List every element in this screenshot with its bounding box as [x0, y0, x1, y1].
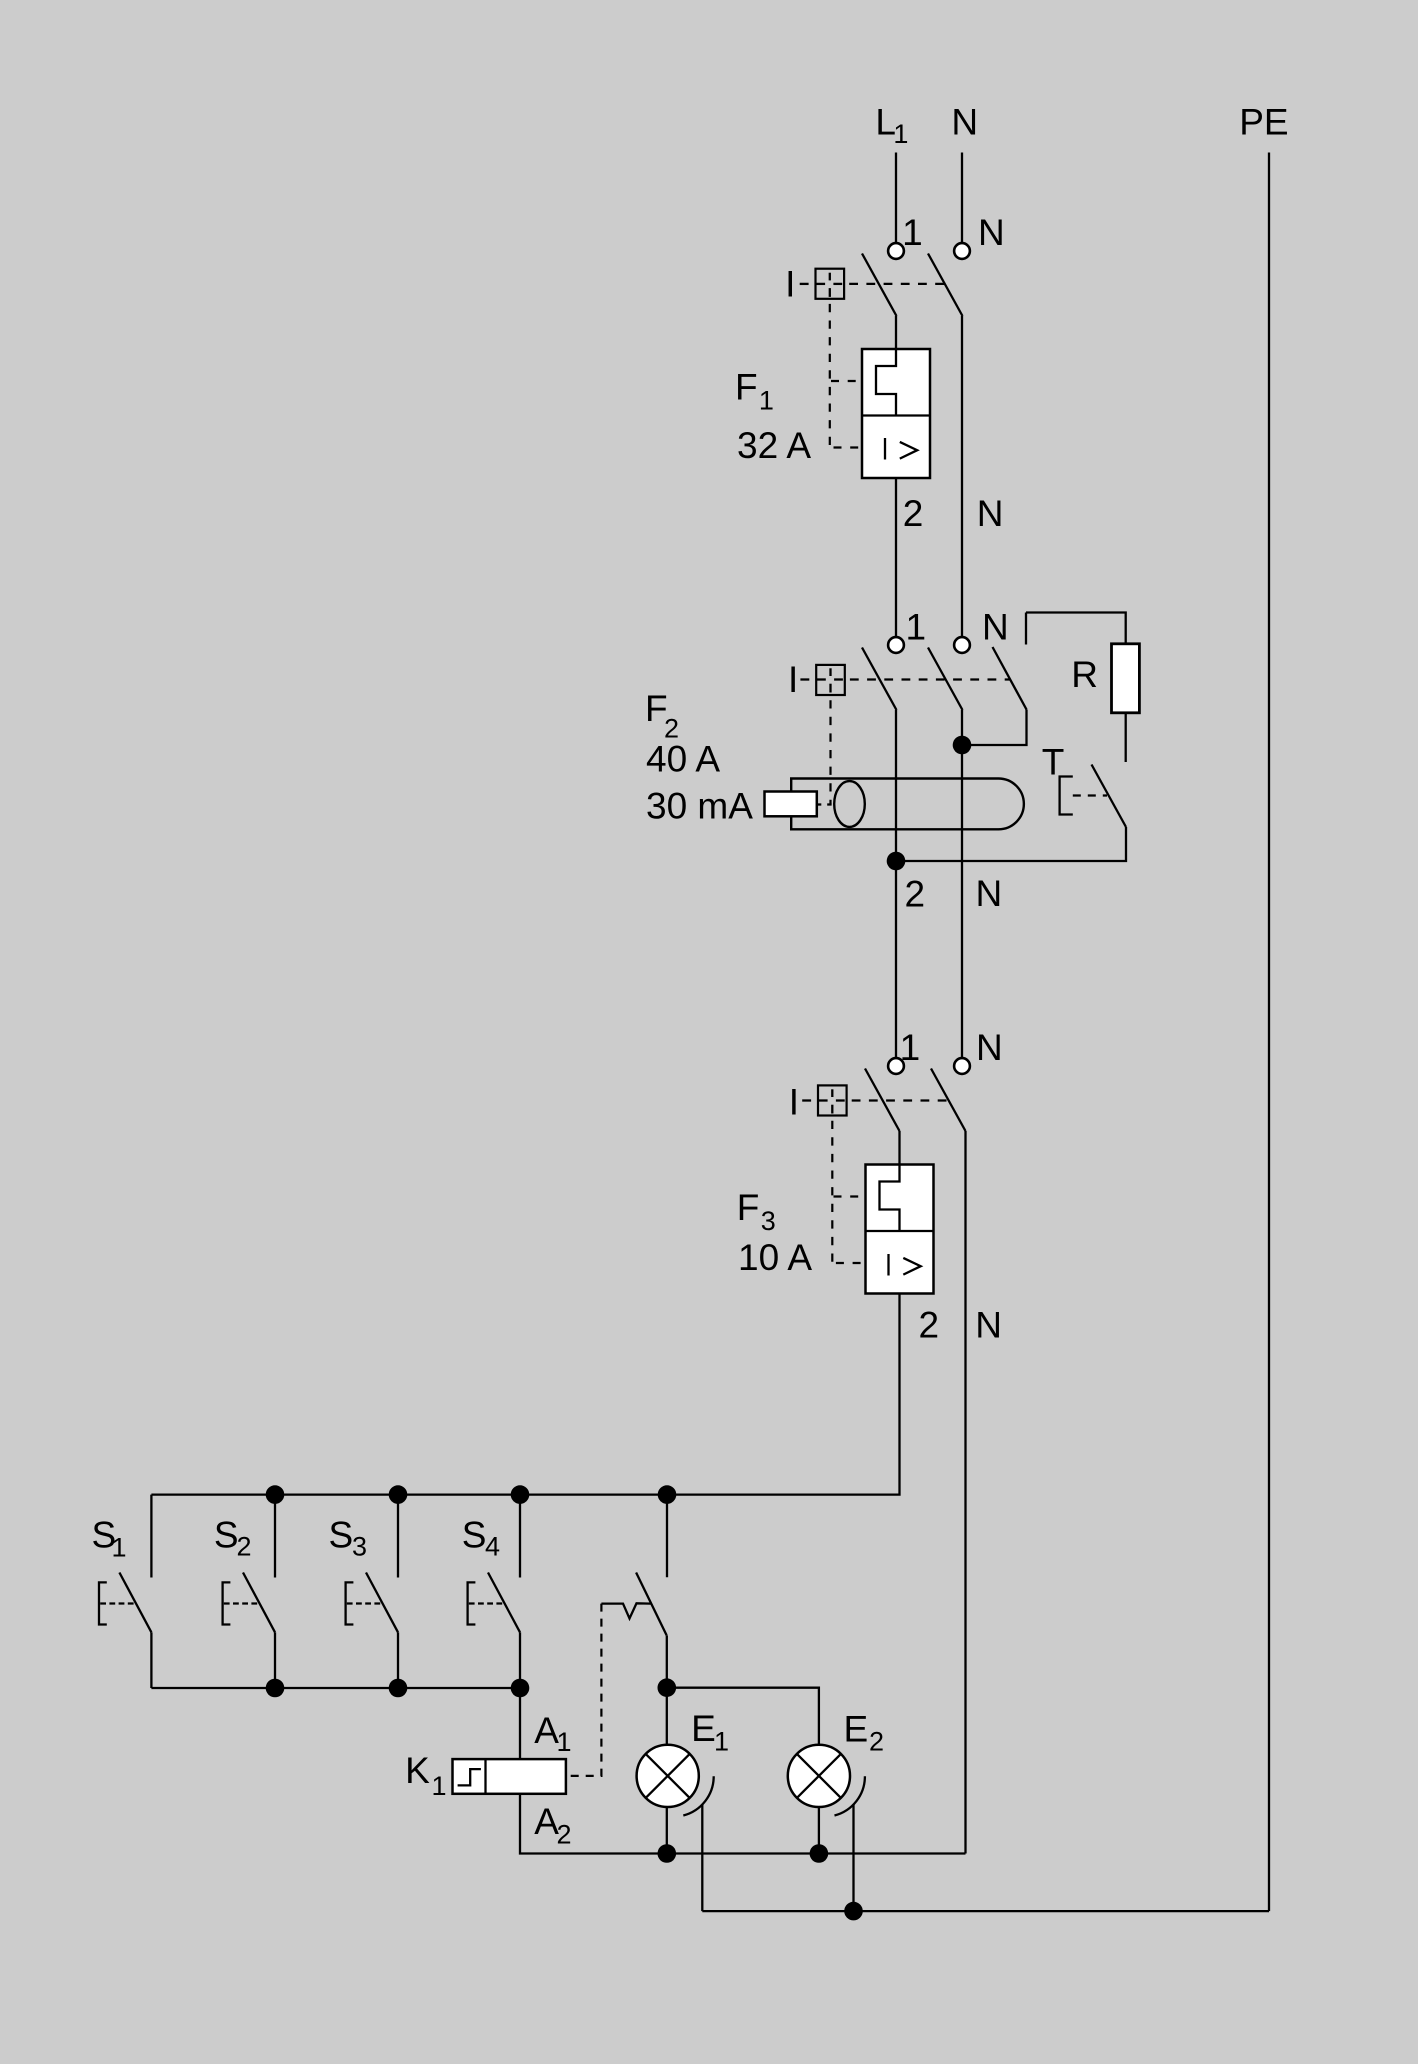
RCD F2 trip vertical dashed to sensing coil	[829, 700, 831, 804]
node junction S3 bottom	[389, 1679, 408, 1698]
svg-text:4: 4	[485, 1532, 500, 1562]
RCD F2 terminal 1	[888, 637, 904, 653]
wire F2 L down to F3	[895, 710, 897, 1058]
svg-text:N: N	[976, 1027, 1003, 1068]
breaker F1 trip vertical dashed	[829, 304, 831, 448]
svg-text:2: 2	[919, 1305, 940, 1346]
svg-text:A: A	[534, 1801, 559, 1842]
svg-text:2: 2	[237, 1532, 252, 1562]
pushbutton S4	[462, 1495, 520, 1688]
breaker F3 thermal element	[880, 1165, 900, 1232]
node junction E2 bottom	[810, 1844, 829, 1863]
RCD F2 pole N blade	[928, 648, 963, 711]
label E2	[844, 1709, 885, 1757]
svg-text:E: E	[691, 1708, 716, 1749]
wire lamp node to E2 branch	[667, 1688, 819, 1745]
breaker F1 divider	[862, 414, 930, 416]
wire test pole fixed contact stub	[1025, 613, 1027, 645]
svg-text:I: I	[788, 659, 798, 700]
svg-text:2: 2	[869, 1727, 884, 1757]
breaker F1 magnetic symbol I>	[885, 438, 917, 460]
wire E1 enclosure to PE bus	[701, 1805, 703, 1912]
svg-text:N: N	[976, 873, 1003, 914]
wire pushbutton bottom bus	[151, 1687, 520, 1689]
node junction bus-S3	[389, 1485, 408, 1504]
breaker F3 terminal N	[954, 1058, 970, 1074]
svg-text:N: N	[977, 493, 1004, 534]
breaker F3 trip branch magnetic dashed	[836, 1262, 865, 1264]
breaker F3 trip vertical dashed	[831, 1121, 833, 1263]
pushbutton S3	[329, 1495, 399, 1688]
svg-text:3: 3	[352, 1532, 367, 1562]
svg-text:N: N	[951, 101, 978, 142]
label F3	[737, 1187, 776, 1236]
node junction bus-S4	[511, 1485, 530, 1504]
wire F2 N down to F3	[961, 710, 963, 1058]
svg-text:S: S	[329, 1514, 354, 1555]
RCD F2 current transformer toroid band	[791, 779, 1024, 830]
node L1 (supply phase)	[875, 101, 908, 149]
relay contact K1 linkage dashed	[566, 1604, 602, 1776]
node junction L-test	[887, 852, 906, 871]
svg-text:A: A	[534, 1710, 559, 1751]
label F1	[735, 367, 774, 416]
svg-text:1: 1	[432, 1771, 447, 1801]
wire F3 L down to switch bus	[151, 1294, 899, 1495]
label K1	[405, 1750, 446, 1801]
svg-text:2: 2	[557, 1820, 572, 1850]
breaker F3 terminal 1	[888, 1058, 904, 1074]
svg-text:1: 1	[906, 606, 927, 647]
breaker F1 pole L blade	[862, 254, 897, 317]
svg-text:PE: PE	[1239, 101, 1288, 142]
breaker F1 terminal 1	[888, 243, 904, 259]
svg-text:E: E	[844, 1709, 869, 1750]
breaker F1 trip branch magnetic dashed	[834, 446, 862, 448]
svg-text:40 A: 40 A	[646, 738, 720, 779]
svg-text:R: R	[1071, 654, 1098, 695]
wire S4 node down to coil A1	[519, 1688, 521, 1759]
breaker F3 body	[866, 1165, 934, 1294]
svg-text:2: 2	[903, 493, 924, 534]
breaker F3 divider	[866, 1230, 934, 1232]
wire F1 N down to F2	[961, 316, 963, 637]
relay contact K1 feed wire	[666, 1495, 668, 1578]
svg-text:F: F	[735, 367, 758, 408]
svg-text:1: 1	[893, 119, 908, 149]
svg-text:1: 1	[557, 1727, 572, 1757]
wire test pole to N junction	[962, 710, 1027, 746]
svg-text:32 A: 32 A	[737, 425, 811, 466]
svg-text:N: N	[978, 212, 1005, 253]
test button T linkage dashed	[1073, 794, 1107, 796]
svg-text:F: F	[737, 1187, 760, 1228]
node junction bus-K contact	[658, 1485, 677, 1504]
breaker F1 terminal N	[954, 243, 970, 259]
node junction bus-S2	[266, 1485, 285, 1504]
label A2	[534, 1801, 571, 1849]
pushbutton S1	[92, 1495, 152, 1688]
node junction N-test	[953, 736, 972, 755]
breaker F1 body	[862, 349, 930, 478]
svg-text:1: 1	[714, 1727, 729, 1757]
wire test switch to L junction	[896, 827, 1126, 861]
wire F1 L down to F2	[895, 478, 897, 637]
wire R to test switch	[1125, 713, 1127, 762]
breaker F1 trip branch thermal dashed	[831, 380, 856, 382]
svg-text:30 mA: 30 mA	[646, 786, 753, 827]
breaker F3 trip box	[818, 1085, 847, 1115]
svg-text:1: 1	[759, 386, 774, 416]
lamp E1	[637, 1745, 699, 1807]
lamp E2 enclosure arc	[835, 1776, 865, 1815]
wire PE bottom bus	[702, 1910, 1269, 1912]
relay coil K1 impulse symbol	[458, 1769, 481, 1785]
wire F1 L blade to box	[895, 316, 897, 349]
RCD F2 sensing coil box	[765, 792, 817, 817]
lamp E1 enclosure arc	[683, 1776, 713, 1815]
breaker F1 trip box	[816, 269, 845, 299]
relay contact K1 latch notch	[601, 1603, 650, 1618]
wire test circuit top bracket	[1026, 613, 1126, 644]
node junction lamp feed	[658, 1678, 677, 1697]
RCD F2 test pole blade	[993, 647, 1027, 710]
wire F3 N down to lamps	[964, 1131, 966, 1854]
node junction E2 PE	[844, 1902, 863, 1921]
breaker F3 pole N blade	[931, 1069, 966, 1132]
svg-text:N: N	[975, 1305, 1002, 1346]
node junction S4 bottom	[511, 1679, 530, 1698]
breaker F3 trip linkage dashed	[802, 1089, 845, 1113]
svg-text:S: S	[462, 1514, 487, 1555]
wire E1 bottom	[666, 1807, 668, 1854]
pushbutton S2	[214, 1495, 275, 1688]
breaker F1 pole N blade	[928, 254, 963, 317]
svg-text:1: 1	[112, 1533, 127, 1563]
svg-text:S: S	[214, 1514, 239, 1555]
wire E2 enclosure to PE bus	[852, 1805, 854, 1912]
breaker F1 thermal element	[876, 349, 896, 416]
wire K1 contact to lamp node	[666, 1635, 668, 1687]
resistor R	[1112, 644, 1140, 713]
node junction S2 bottom	[266, 1679, 285, 1698]
svg-text:1: 1	[902, 212, 923, 253]
breaker F3 trip branch thermal dashed	[834, 1195, 859, 1197]
svg-text:N: N	[982, 606, 1009, 647]
label A1	[534, 1710, 571, 1757]
svg-text:3: 3	[761, 1206, 776, 1236]
breaker F1 trip linkage dashed	[800, 273, 843, 297]
RCD F2 pole L blade	[862, 648, 897, 711]
svg-text:I: I	[785, 264, 795, 305]
wire PE vertical	[1268, 153, 1270, 1912]
label F2	[645, 688, 679, 744]
svg-text:I: I	[789, 1081, 799, 1122]
wire E2 bottom	[818, 1807, 820, 1854]
RCD F2 trip box	[816, 665, 845, 695]
label E1	[691, 1708, 729, 1757]
test button T blade	[1092, 765, 1127, 828]
RCD F2 current transformer left rim ellipse	[834, 781, 865, 827]
relay coil K1 divider	[484, 1759, 486, 1794]
wire L1 feed	[895, 153, 897, 243]
wire coil A2 to return bus	[520, 1794, 966, 1854]
node junction E1 bottom	[658, 1844, 677, 1863]
RCD F2 terminal N	[954, 637, 970, 653]
relay coil K1	[453, 1759, 566, 1794]
svg-text:K: K	[405, 1750, 430, 1791]
RCD F2 trip linkage dashed	[800, 668, 843, 692]
breaker F3 pole L blade	[865, 1069, 900, 1132]
wire E1 top	[666, 1688, 668, 1745]
lamp E2	[788, 1745, 850, 1807]
wire N feed	[961, 153, 963, 243]
test button T actuator bracket	[1060, 777, 1073, 815]
relay contact K1 blade	[636, 1573, 667, 1636]
wire F3 L blade to box	[898, 1131, 900, 1165]
breaker F3 magnetic symbol I>	[889, 1254, 921, 1276]
svg-text:10 A: 10 A	[738, 1237, 812, 1278]
RCD F2 sensing coil tick	[827, 803, 831, 805]
svg-text:2: 2	[905, 873, 926, 914]
